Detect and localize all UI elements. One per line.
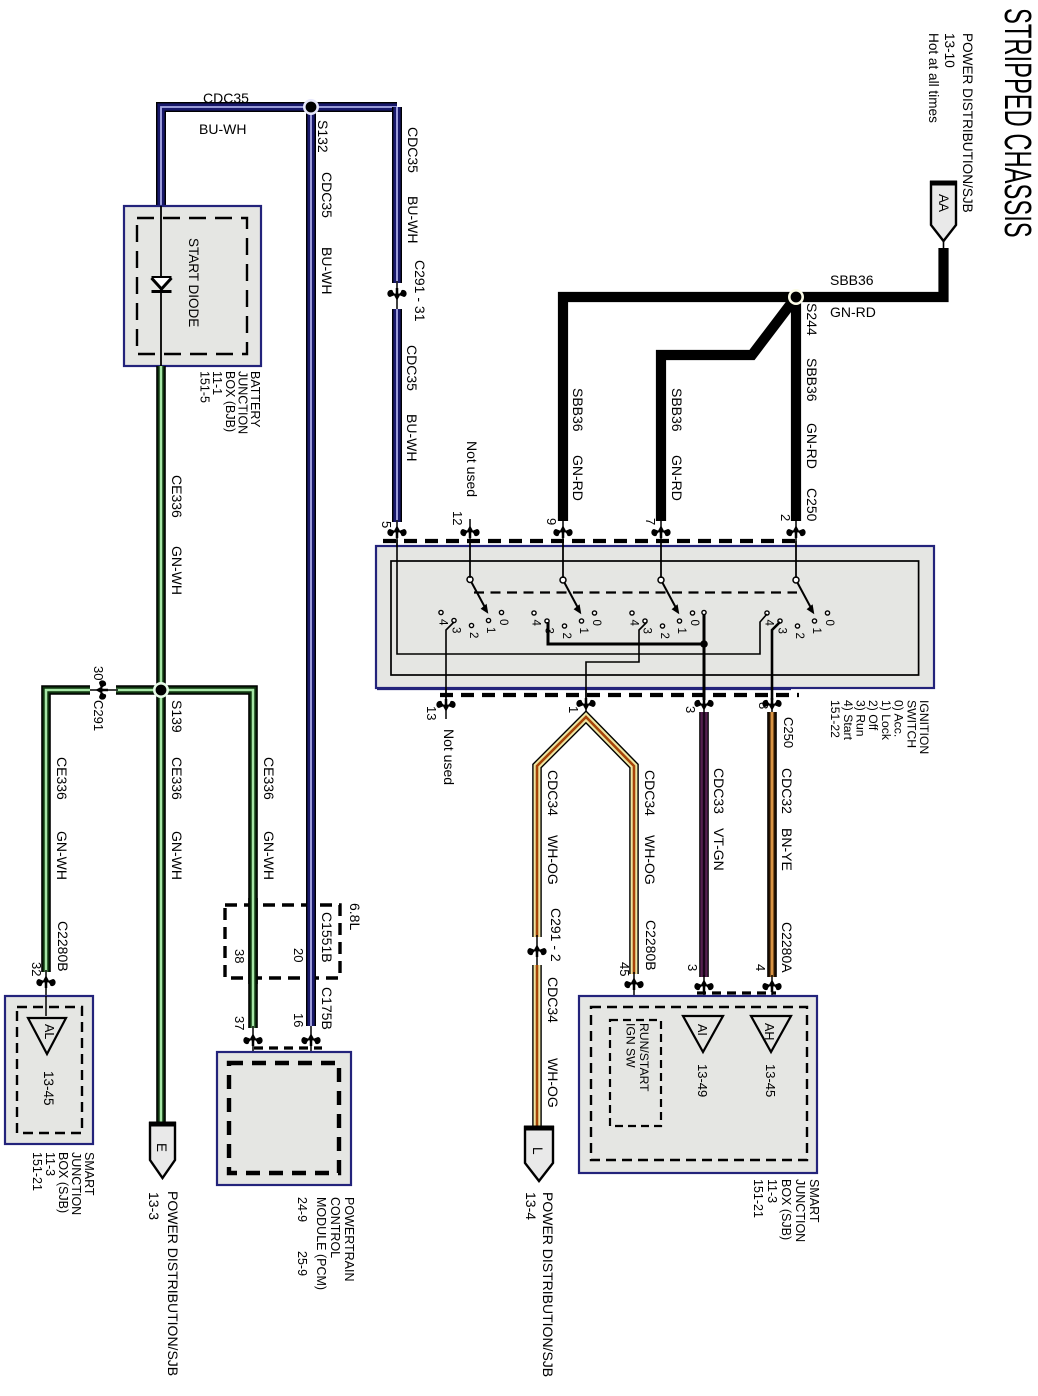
connector dash bracket above PCM xyxy=(254,1046,322,1049)
ignition internal junction dot xyxy=(700,640,708,648)
svg-text:25-9: 25-9 xyxy=(295,1251,309,1276)
wire CE336 segment over C1551B dashes xyxy=(248,898,258,984)
svg-text:POWER DISTRIBUTION/SJB: POWER DISTRIBUTION/SJB xyxy=(960,33,975,213)
splice S139 xyxy=(153,682,169,698)
svg-text:Hot at all times: Hot at all times xyxy=(926,33,941,123)
svg-text:8: 8 xyxy=(756,702,771,709)
svg-text:BOX (SJB): BOX (SJB) xyxy=(779,1179,793,1240)
svg-text:L: L xyxy=(530,1147,545,1155)
connector dashed row above ignition switch xyxy=(383,539,799,543)
svg-text:4: 4 xyxy=(628,620,640,627)
ignition switch section 2 pivot and contacts xyxy=(530,577,603,639)
wire CDC33 VT-GN from ignition pin 3 to SJB pin 3 xyxy=(699,712,709,977)
pin 3 connector arrow into SJB xyxy=(703,975,705,1016)
svg-text:GN-RD: GN-RD xyxy=(570,455,586,501)
wire SBB36 GN-RD from AA to S244 and down to pin 9 xyxy=(563,248,944,521)
svg-text:SBB36: SBB36 xyxy=(570,388,586,432)
svg-text:CE336: CE336 xyxy=(169,757,185,800)
svg-text:C250: C250 xyxy=(781,717,796,748)
svg-text:151-21: 151-21 xyxy=(751,1179,765,1218)
pin 12 entry (not used) xyxy=(469,519,471,578)
svg-text:STRIPPED CHASSIS: STRIPPED CHASSIS xyxy=(997,8,1038,238)
wire CDC32 BN-YE from ignition pin 8 to SJB pin 4 xyxy=(767,712,777,977)
svg-text:4: 4 xyxy=(753,964,768,971)
svg-text:GN-WH: GN-WH xyxy=(261,831,277,880)
svg-text:GN-RD: GN-RD xyxy=(804,423,820,469)
svg-text:2: 2 xyxy=(560,633,572,639)
svg-text:0: 0 xyxy=(823,620,835,626)
wire CDC35 BU-WH right vertical upper (to C291-31) xyxy=(392,107,402,283)
pin 32 connector arrow xyxy=(45,970,47,996)
svg-text:GN-WH: GN-WH xyxy=(54,831,70,880)
svg-text:RUN/START: RUN/START xyxy=(637,1023,651,1092)
svg-text:VT-GN: VT-GN xyxy=(711,828,727,871)
triangle AL xyxy=(28,1018,66,1054)
ignition internal wire section1 contact3 to pin13 xyxy=(446,622,454,700)
wire CDC34 WH-OG Y-split from ignition pin 1 xyxy=(537,717,634,974)
svg-text:SBB36: SBB36 xyxy=(669,388,685,432)
svg-text:12: 12 xyxy=(450,511,465,525)
svg-text:CDC34: CDC34 xyxy=(642,770,658,816)
svg-text:BU-WH: BU-WH xyxy=(405,196,421,243)
label BATTERY JUNCTION BOX (BJB) 11-1 151-5 xyxy=(198,371,262,434)
svg-text:GN-RD: GN-RD xyxy=(669,455,685,501)
wire CE336 GN-WH left horizontal to C291-30 xyxy=(116,685,161,695)
inline connector C291 pin 31 xyxy=(396,281,398,311)
svg-text:6.8L: 6.8L xyxy=(347,903,363,930)
svg-text:POWER DISTRIBUTION/SJB: POWER DISTRIBUTION/SJB xyxy=(165,1191,181,1376)
svg-text:13-45: 13-45 xyxy=(41,1071,56,1106)
stub to pivots xyxy=(469,541,471,577)
label POWERTRAIN CONTROL MODULE (PCM) 24-9 25-9 xyxy=(314,1197,356,1290)
svg-text:BU-WH: BU-WH xyxy=(404,414,420,461)
svg-text:151-21: 151-21 xyxy=(30,1152,44,1191)
label RUN/START IGN SW xyxy=(624,1023,652,1092)
svg-text:BOX (SJB): BOX (SJB) xyxy=(56,1152,70,1213)
svg-text:3: 3 xyxy=(683,706,698,713)
svg-text:IGN SW: IGN SW xyxy=(624,1023,638,1068)
powertrain control module PCM box xyxy=(217,1052,351,1185)
svg-text:1: 1 xyxy=(577,628,589,634)
svg-text:CE336: CE336 xyxy=(261,757,277,800)
svg-text:E: E xyxy=(154,1143,169,1152)
svg-text:20: 20 xyxy=(291,948,306,962)
wire CE336 GN-WH right branch to PCM pin 37 xyxy=(161,690,253,1028)
wire CDC35 BU-WH right vertical lower (to ignition pin 5) xyxy=(392,309,402,522)
inline connector C291 pin 2 xyxy=(536,935,538,967)
svg-text:CONTROL: CONTROL xyxy=(328,1197,342,1258)
svg-text:C1551B: C1551B xyxy=(319,912,335,963)
svg-text:1: 1 xyxy=(566,706,581,713)
svg-text:CDC35: CDC35 xyxy=(404,345,420,391)
svg-text:1: 1 xyxy=(675,628,687,634)
svg-text:SMART: SMART xyxy=(807,1179,821,1223)
svg-text:CDC35: CDC35 xyxy=(405,127,421,173)
triangle AI xyxy=(683,1016,723,1052)
svg-text:AI: AI xyxy=(695,1024,709,1036)
svg-text:CDC34: CDC34 xyxy=(545,977,561,1023)
pin 37 connector arrow into PCM xyxy=(252,1026,254,1064)
ignition switch section 1 pivot and contacts xyxy=(437,577,510,639)
svg-text:CE336: CE336 xyxy=(169,475,185,518)
svg-text:Not used: Not used xyxy=(441,729,457,785)
ignition switch section 3 pivot and contacts xyxy=(628,577,701,639)
svg-text:Not used: Not used xyxy=(464,441,480,497)
pin 9 entry xyxy=(562,520,564,578)
svg-text:CDC35: CDC35 xyxy=(203,90,249,106)
svg-text:C2280A: C2280A xyxy=(779,922,795,973)
svg-text:13-3: 13-3 xyxy=(146,1192,162,1220)
wire SBB36 GN-RD branch down to pin 2 C250 xyxy=(791,293,801,521)
svg-text:3: 3 xyxy=(641,628,653,634)
label IGNITION SWITCH positions 151-22 xyxy=(828,700,931,754)
svg-text:C291: C291 xyxy=(91,700,106,731)
connector L xyxy=(525,1127,553,1181)
wire CDC35 BU-WH top horizontal xyxy=(161,107,397,206)
svg-text:JUNCTION: JUNCTION xyxy=(69,1152,83,1215)
svg-text:WH-OG: WH-OG xyxy=(545,835,561,885)
wire CDC34 WH-OG lower left branch to connector L xyxy=(532,965,542,1126)
svg-text:GN-RD: GN-RD xyxy=(830,304,876,320)
svg-text:GN-WH: GN-WH xyxy=(169,546,185,595)
svg-text:C175B: C175B xyxy=(319,987,335,1030)
svg-text:S132: S132 xyxy=(315,120,331,153)
pin 4 connector arrow into SJB xyxy=(771,975,773,1016)
ignition switch inner rectangle xyxy=(391,561,919,675)
svg-text:C250: C250 xyxy=(804,488,820,522)
svg-text:30: 30 xyxy=(91,666,106,680)
svg-text:START DIODE: START DIODE xyxy=(186,238,201,327)
label POWER DISTRIBUTION/SJB 13-3 xyxy=(165,1191,181,1376)
svg-text:3: 3 xyxy=(776,628,788,634)
svg-text:CDC35: CDC35 xyxy=(319,172,335,218)
svg-text:S244: S244 xyxy=(804,303,820,336)
ignition switch section 4 pivot and contacts xyxy=(763,577,836,639)
pin 7 entry xyxy=(660,520,662,578)
svg-text:0: 0 xyxy=(590,620,602,626)
svg-text:7: 7 xyxy=(643,518,658,525)
svg-text:2: 2 xyxy=(658,633,670,639)
wire CE336 GN-WH left branch down to SJB pin 32 xyxy=(46,690,90,972)
svg-text:2: 2 xyxy=(793,633,805,639)
connector dashed row below ignition switch xyxy=(440,693,799,697)
pin 2 entry xyxy=(795,520,797,578)
svg-text:4: 4 xyxy=(763,620,775,627)
dashed box RUN/START IGN SW xyxy=(610,1020,661,1126)
svg-text:MODULE (PCM): MODULE (PCM) xyxy=(314,1197,328,1290)
svg-text:13-10: 13-10 xyxy=(942,33,957,68)
ignition switch mechanical dashed link xyxy=(474,591,797,593)
svg-text:CDC34: CDC34 xyxy=(545,770,561,816)
svg-text:11-3: 11-3 xyxy=(765,1179,779,1203)
svg-text:C2280B: C2280B xyxy=(55,921,71,972)
svg-text:4: 4 xyxy=(530,620,542,627)
inline connector C291 pin 30 xyxy=(88,689,118,691)
connector C1551B dashed box 6.8L xyxy=(225,905,340,978)
svg-text:151-22: 151-22 xyxy=(828,700,842,738)
connector E xyxy=(150,1123,175,1178)
svg-text:2: 2 xyxy=(778,514,793,521)
svg-text:POWERTRAIN: POWERTRAIN xyxy=(342,1197,356,1282)
svg-text:POWER DISTRIBUTION/SJB: POWER DISTRIBUTION/SJB xyxy=(540,1192,556,1377)
svg-text:45: 45 xyxy=(617,962,632,976)
svg-text:JUNCTION: JUNCTION xyxy=(793,1179,807,1242)
smart junction box SJB right xyxy=(579,996,817,1173)
diode CR (start diode) xyxy=(152,278,172,292)
smart junction box SJB left xyxy=(5,996,93,1144)
connector dash bracket C2280A xyxy=(697,991,776,994)
svg-text:AL: AL xyxy=(42,1024,56,1039)
svg-text:SMART: SMART xyxy=(82,1152,96,1196)
svg-text:38: 38 xyxy=(232,949,247,963)
svg-text:CE336: CE336 xyxy=(54,757,70,800)
ignition internal wire section3 contact3 to pin1 xyxy=(586,622,647,700)
splice S132 xyxy=(303,99,319,115)
svg-text:16: 16 xyxy=(291,1013,306,1027)
pin 8 exit C250 xyxy=(771,689,773,712)
svg-text:9: 9 xyxy=(544,518,559,525)
svg-text:4: 4 xyxy=(437,619,449,626)
pin 1 exit xyxy=(585,689,587,718)
svg-text:5: 5 xyxy=(379,521,394,528)
label SMART JUNCTION BOX (SJB) 11-3 151-21 left xyxy=(30,1152,96,1215)
svg-text:SBB36: SBB36 xyxy=(830,272,874,288)
svg-text:AA: AA xyxy=(936,194,951,212)
svg-text:11-3: 11-3 xyxy=(43,1152,57,1176)
pin 5 entry xyxy=(396,520,398,547)
svg-text:CDC32: CDC32 xyxy=(779,768,795,814)
title STRIPPED CHASSIS xyxy=(997,8,1038,238)
ignition internal wire section4 contact3 to pin8 xyxy=(772,622,780,700)
svg-text:BU-WH: BU-WH xyxy=(199,121,246,137)
ignition internal thick run bus from section2 contact3 xyxy=(548,622,704,644)
wire through start diode xyxy=(160,206,162,366)
svg-text:32: 32 xyxy=(29,962,44,976)
svg-text:2: 2 xyxy=(467,632,479,638)
splice S244 xyxy=(788,289,804,305)
pin 13 exit (not used) xyxy=(445,689,447,719)
wire into AL triangle xyxy=(45,996,47,1016)
svg-text:AH: AH xyxy=(762,1023,776,1040)
svg-text:13: 13 xyxy=(424,706,439,720)
svg-text:WH-OG: WH-OG xyxy=(545,1058,561,1108)
svg-text:1: 1 xyxy=(810,628,822,634)
label POWER DISTRIBUTION/SJB 13-4 xyxy=(540,1192,556,1377)
pin 16 connector arrow into PCM xyxy=(310,1026,312,1064)
svg-text:C291 - 31: C291 - 31 xyxy=(412,260,428,322)
label POWER DISTRIBUTION/SJB 13-10 Hot at all times xyxy=(926,33,975,213)
svg-text:C291 - 2: C291 - 2 xyxy=(548,908,564,962)
svg-text:13-4: 13-4 xyxy=(523,1192,539,1220)
svg-text:13-45: 13-45 xyxy=(763,1064,778,1097)
svg-text:WH-OG: WH-OG xyxy=(642,835,658,885)
svg-text:24-9: 24-9 xyxy=(295,1197,309,1222)
battery junction box BJB with start diode xyxy=(124,206,261,366)
ignition internal wire pin5 to section4 contact 4 xyxy=(397,540,767,654)
wire CDC35 BU-WH long vertical from S132 to PCM pin 16 xyxy=(306,107,316,1026)
svg-text:0: 0 xyxy=(497,619,509,625)
wire CE336 GN-WH middle branch down to connector E xyxy=(156,690,166,1122)
svg-text:13-49: 13-49 xyxy=(695,1064,710,1097)
svg-text:1: 1 xyxy=(484,627,496,633)
connector AA (from power distribution) xyxy=(931,182,956,241)
wire CDC35 segment over C1551B dashes xyxy=(306,898,316,984)
svg-text:151-5: 151-5 xyxy=(198,371,212,403)
wire CE336 GN-WH from diode box to S139 xyxy=(156,366,166,690)
svg-text:0: 0 xyxy=(688,620,700,626)
triangle AH xyxy=(751,1016,791,1052)
ignition switch box xyxy=(376,546,934,688)
pin 45 connector arrow into SJB xyxy=(633,972,635,1020)
svg-text:S139: S139 xyxy=(169,700,185,733)
svg-text:3: 3 xyxy=(450,627,462,633)
svg-text:CDC33: CDC33 xyxy=(711,768,727,814)
svg-text:BU-WH: BU-WH xyxy=(319,247,335,294)
svg-text:GN-WH: GN-WH xyxy=(169,831,185,880)
pin 3 exit xyxy=(703,689,705,712)
wire SBB36 GN-RD diagonal branch to pin 7 xyxy=(661,297,796,521)
svg-text:C2280B: C2280B xyxy=(643,920,659,971)
svg-text:SBB36: SBB36 xyxy=(804,358,820,402)
label SMART JUNCTION BOX (SJB) 11-3 151-21 right xyxy=(751,1179,821,1242)
svg-text:BN-YE: BN-YE xyxy=(779,828,795,871)
ignition internal wire section3 contact0 to pin3 vertical xyxy=(703,613,706,700)
svg-text:3: 3 xyxy=(685,964,700,971)
svg-text:37: 37 xyxy=(232,1016,247,1030)
